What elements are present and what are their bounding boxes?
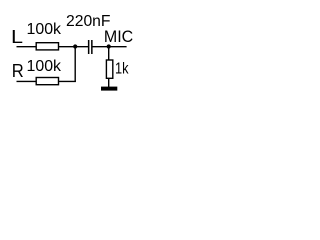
svg-text:100k: 100k <box>27 21 62 38</box>
svg-text:1k: 1k <box>115 61 129 78</box>
svg-text:R: R <box>12 61 24 81</box>
svg-text:L: L <box>11 27 23 47</box>
svg-text:MIC: MIC <box>104 28 133 46</box>
svg-text:100k: 100k <box>27 58 62 75</box>
